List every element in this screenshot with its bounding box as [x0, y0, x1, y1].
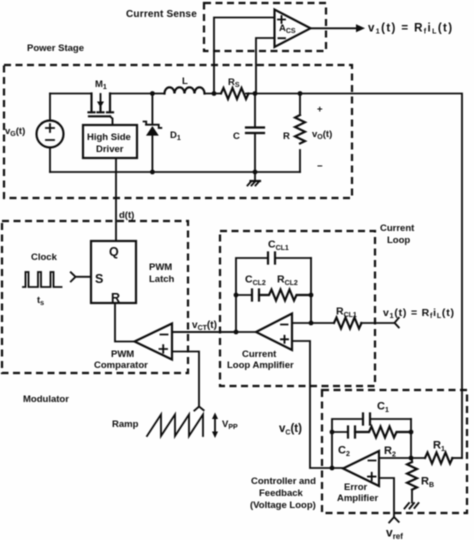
svg-text:Loop: Loop — [387, 235, 410, 246]
svg-text:Feedback: Feedback — [259, 488, 304, 499]
svg-text:Comparator: Comparator — [94, 360, 148, 371]
svg-text:Current: Current — [380, 223, 415, 234]
svg-text:R: R — [283, 131, 290, 142]
svg-text:Clock: Clock — [31, 252, 58, 263]
svg-text:L: L — [182, 76, 188, 87]
svg-text:(Voltage Loop): (Voltage Loop) — [250, 500, 316, 511]
svg-text:Modulator: Modulator — [23, 394, 69, 405]
svg-text:+: + — [317, 104, 323, 115]
svg-text:vC(t): vC(t) — [279, 423, 302, 437]
svg-text:Amplifier: Amplifier — [337, 493, 378, 504]
svg-text:PWM: PWM — [111, 349, 134, 360]
svg-text:Driver: Driver — [96, 144, 124, 155]
svg-text:Power Stage: Power Stage — [27, 43, 84, 54]
svg-text:S: S — [95, 272, 103, 286]
svg-text:vG(t): vG(t) — [5, 126, 25, 138]
svg-text:R: R — [111, 291, 120, 305]
svg-text:−: − — [317, 161, 323, 172]
svg-text:Q: Q — [109, 245, 119, 259]
svg-text:v1(t) = RfiL(t): v1(t) = RfiL(t) — [383, 307, 455, 320]
svg-text:Latch: Latch — [149, 274, 175, 285]
svg-text:High Side: High Side — [87, 132, 131, 143]
svg-text:PWM: PWM — [149, 262, 172, 273]
svg-text:Current Sense: Current Sense — [126, 9, 197, 20]
svg-text:d(t): d(t) — [119, 210, 134, 221]
svg-text:vO(t): vO(t) — [312, 129, 332, 141]
svg-text:Loop Amplifier: Loop Amplifier — [227, 360, 294, 371]
svg-text:Error: Error — [344, 482, 368, 493]
svg-text:v1(t) = RfiL(t): v1(t) = RfiL(t) — [368, 23, 454, 36]
svg-text:C: C — [233, 131, 240, 142]
svg-text:Ramp: Ramp — [112, 419, 139, 430]
svg-text:Controller and: Controller and — [251, 476, 316, 487]
svg-text:Current: Current — [242, 349, 277, 360]
